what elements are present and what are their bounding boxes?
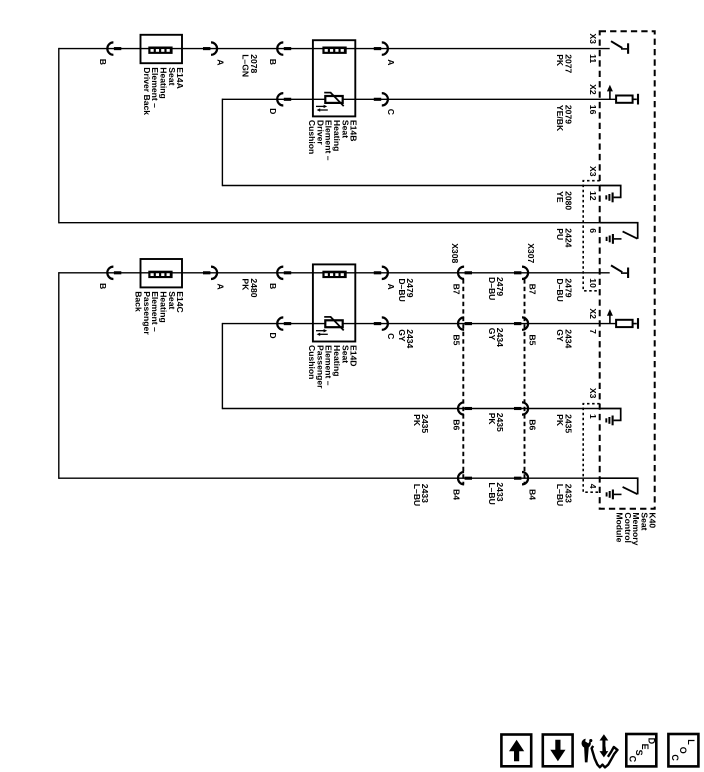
svg-text:B7: B7 bbox=[527, 284, 537, 295]
svg-text:O: O bbox=[678, 747, 688, 754]
svg-text:L–BU: L–BU bbox=[555, 484, 565, 506]
component box E14A bbox=[141, 35, 183, 63]
switched ground inside K40 at pin 6 bbox=[600, 223, 638, 239]
svg-text:12: 12 bbox=[588, 191, 598, 201]
resistor element E14B heating element bbox=[322, 47, 346, 54]
svg-text:6: 6 bbox=[588, 228, 598, 233]
svg-text:B4: B4 bbox=[452, 489, 462, 500]
component box E14B bbox=[313, 40, 355, 116]
connector pin A of E14C bbox=[203, 271, 210, 274]
svg-text:B6: B6 bbox=[527, 419, 537, 430]
wire 2434 GY passenger w6 bbox=[222, 323, 616, 325]
connector X307 terminal B5 bbox=[514, 322, 521, 325]
connector pin C of E14D bbox=[374, 322, 381, 325]
svg-text:D: D bbox=[268, 108, 278, 114]
connector X307 terminal B6 bbox=[514, 407, 521, 410]
resistor element E14A (seat heating element) bbox=[148, 47, 172, 54]
svg-text:B6: B6 bbox=[452, 419, 462, 430]
svg-text:C: C bbox=[386, 109, 396, 115]
svg-text:B: B bbox=[268, 59, 278, 65]
svg-text:X307: X307 bbox=[526, 243, 536, 263]
svg-text:Cushion: Cushion bbox=[307, 120, 317, 154]
svg-text:4: 4 bbox=[588, 484, 598, 489]
wire 2077 PK / top driver wire w1 bbox=[59, 48, 610, 50]
svg-text:X2: X2 bbox=[588, 84, 598, 95]
connector pin D of E14B bbox=[277, 93, 283, 105]
svg-text:A: A bbox=[386, 284, 396, 290]
connector X308 terminal B5 bbox=[458, 317, 464, 329]
svg-text:B7: B7 bbox=[452, 284, 462, 295]
connector pin A of E14A bbox=[203, 47, 210, 50]
svg-text:B: B bbox=[98, 283, 108, 289]
connector pin C of E14B bbox=[374, 98, 381, 101]
icon down-arrow box bbox=[543, 735, 573, 767]
switch inside K40 at pin 11 bbox=[611, 41, 622, 48]
wire 2424 PU driver w4 bbox=[59, 222, 601, 224]
wire vertical left driver (B of E14A to 2424 PU) bbox=[58, 48, 60, 224]
wire vertical driver (D of E14B to 2080 YE) bbox=[221, 99, 223, 187]
connector pin B of E14D bbox=[277, 267, 283, 279]
svg-text:PU: PU bbox=[555, 228, 565, 240]
connector pin A of E14B bbox=[374, 47, 381, 50]
svg-text:L–BU: L–BU bbox=[412, 484, 422, 506]
icon DESC box bbox=[626, 734, 656, 766]
switch inside K40 at pin 10 bbox=[611, 265, 622, 272]
wire vertical passenger (D of E14D to 2435 PK) bbox=[221, 323, 223, 409]
wire vertical left passenger (B of E14C to 2433 L-BU) bbox=[58, 272, 60, 479]
in-line connector X307 dashed line bbox=[524, 279, 526, 484]
thermistor element inside E14D bbox=[325, 320, 342, 327]
icon up-arrow box bbox=[501, 735, 531, 767]
svg-text:16: 16 bbox=[588, 105, 598, 115]
svg-text:GY: GY bbox=[397, 329, 407, 342]
connector X308 terminal B4 bbox=[458, 472, 464, 484]
connector X308 terminal B6 bbox=[458, 402, 464, 414]
svg-text:A: A bbox=[215, 59, 225, 65]
svg-text:L–BU: L–BU bbox=[487, 482, 497, 504]
svg-text:PK: PK bbox=[555, 54, 565, 67]
connector X3 dotted bracket (pins 12-6-10) bbox=[583, 181, 600, 291]
svg-text:7: 7 bbox=[588, 329, 598, 334]
svg-text:GY: GY bbox=[487, 328, 497, 341]
wire 2433 L-BU passenger w8 bbox=[59, 477, 601, 479]
svg-text:X3: X3 bbox=[588, 388, 598, 399]
svg-text:D–BU: D–BU bbox=[487, 277, 497, 300]
connector X307 terminal B7 bbox=[514, 271, 521, 274]
icon down-arrow glyph bbox=[550, 740, 565, 761]
thermistor element inside E14B bbox=[325, 96, 342, 103]
svg-text:Back: Back bbox=[134, 291, 144, 312]
icon LOC box bbox=[668, 734, 698, 766]
icon wrench with arrows (service navigation) bbox=[582, 734, 618, 767]
svg-text:YE/BK: YE/BK bbox=[555, 105, 565, 132]
wire 2479 D-BU top passenger wire w5 bbox=[59, 272, 610, 274]
svg-text:C: C bbox=[670, 754, 680, 761]
wire 2435 PK passenger w7 bbox=[222, 408, 600, 410]
svg-text:11: 11 bbox=[588, 54, 598, 63]
svg-text:PK: PK bbox=[240, 278, 250, 291]
svg-text:A: A bbox=[215, 284, 225, 290]
svg-text:B: B bbox=[98, 59, 108, 65]
svg-text:X308: X308 bbox=[450, 243, 460, 263]
svg-text:X2: X2 bbox=[588, 308, 598, 319]
component box E14C bbox=[141, 259, 183, 287]
ground hook inside K40 at pin X3-1 bbox=[600, 409, 621, 421]
svg-text:B: B bbox=[268, 283, 278, 289]
resistor element E14C heating element bbox=[148, 271, 172, 278]
wire 2080 YE driver w3 bbox=[222, 185, 600, 187]
connector X307 terminal B4 bbox=[514, 477, 521, 480]
connector X3 dotted bracket (pins 1-4) bbox=[583, 404, 600, 493]
svg-text:Driver Back: Driver Back bbox=[142, 67, 152, 115]
svg-text:10: 10 bbox=[588, 278, 598, 288]
svg-text:Module: Module bbox=[614, 512, 624, 542]
connector pin B of E14B bbox=[277, 42, 283, 54]
svg-text:B5: B5 bbox=[452, 334, 462, 345]
svg-text:C: C bbox=[386, 333, 396, 339]
switched ground inside K40 at pin 4 bbox=[600, 478, 638, 494]
svg-text:L–GN: L–GN bbox=[240, 54, 250, 77]
svg-text:D–BU: D–BU bbox=[555, 278, 565, 301]
svg-text:X3: X3 bbox=[588, 166, 598, 177]
connector pin B of E14C bbox=[107, 267, 113, 279]
connector pin A of E14D bbox=[374, 271, 381, 274]
svg-text:C: C bbox=[628, 756, 638, 763]
svg-text:GY: GY bbox=[555, 329, 565, 342]
svg-text:YE: YE bbox=[555, 191, 565, 203]
svg-text:Cushion: Cushion bbox=[307, 345, 317, 379]
svg-text:B5: B5 bbox=[527, 334, 537, 345]
svg-text:D: D bbox=[268, 332, 278, 338]
wire 2079 YE/BK driver w2 bbox=[222, 98, 616, 100]
module K40 dashed boundary box bbox=[600, 31, 655, 509]
svg-text:PK: PK bbox=[487, 413, 497, 426]
svg-text:D–BU: D–BU bbox=[397, 278, 407, 301]
connector pin D of E14D bbox=[277, 317, 283, 329]
svg-text:X3: X3 bbox=[588, 33, 598, 44]
component box E14D bbox=[313, 264, 355, 341]
in-line connector X308 dashed line bbox=[462, 279, 464, 484]
resistor element E14D heating element bbox=[322, 271, 346, 278]
connector pin B of E14A bbox=[107, 42, 113, 54]
svg-text:A: A bbox=[386, 59, 396, 65]
svg-text:PK: PK bbox=[412, 414, 422, 427]
svg-text:L: L bbox=[686, 739, 696, 745]
connector X308 terminal B7 bbox=[458, 267, 464, 279]
resistor and voltage feed inside K40 at pin X2-7 bbox=[609, 315, 611, 323]
svg-text:PK: PK bbox=[555, 414, 565, 427]
icon up-arrow glyph bbox=[509, 740, 524, 761]
svg-text:1: 1 bbox=[588, 414, 598, 419]
svg-text:B4: B4 bbox=[527, 489, 537, 500]
ground hook inside K40 at pin 12 bbox=[600, 186, 621, 198]
resistor and voltage feed inside K40 at pin X2-16 bbox=[609, 91, 611, 99]
